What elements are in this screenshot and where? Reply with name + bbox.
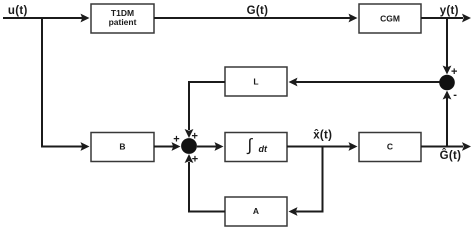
node xhat branch down to A	[289, 147, 323, 216]
svg-text:G(t): G(t)	[247, 5, 269, 17]
svg-text:x̂(t): x̂(t)	[313, 129, 332, 141]
svg-text:+: +	[451, 66, 457, 78]
svg-text:-: -	[453, 89, 457, 101]
block C	[359, 133, 421, 162]
svg-text:patient: patient	[109, 17, 137, 27]
svg-text:+: +	[173, 134, 179, 146]
wire y branch down to sum S1	[443, 17, 452, 75]
svg-text:L: L	[253, 77, 258, 87]
block A	[225, 197, 287, 226]
svg-text:dt: dt	[259, 144, 268, 154]
svg-text:+: +	[192, 131, 198, 143]
svg-text:A: A	[253, 206, 259, 216]
wire Ghat branch up to S1	[443, 91, 452, 147]
summing junction S2	[181, 138, 197, 154]
svg-text:Ĝ(t): Ĝ(t)	[440, 149, 462, 162]
wire integrator to C	[287, 142, 358, 151]
summing junction S1	[439, 75, 455, 91]
block L	[225, 67, 287, 96]
wire L output down to sum S2	[185, 82, 225, 138]
wire G(t) T1DM to CGM	[154, 14, 358, 23]
svg-text:C: C	[387, 141, 393, 151]
svg-text:CGM: CGM	[380, 13, 400, 23]
block T1DM patient	[91, 4, 154, 33]
wire A output up to sum S2	[185, 154, 225, 212]
wire B to sum S2	[154, 142, 181, 151]
wire S1 to L	[289, 78, 440, 87]
svg-text:u(t): u(t)	[8, 5, 28, 17]
wire y(t) output	[421, 14, 471, 23]
block integrator	[225, 133, 287, 162]
wire u branch to B	[41, 142, 90, 151]
block B	[91, 133, 154, 162]
svg-text:B: B	[119, 141, 125, 151]
wire u(t) input to T1DM	[3, 14, 90, 23]
wire S2 to integrator	[197, 142, 224, 151]
svg-text:+: +	[192, 154, 198, 166]
svg-text:y(t): y(t)	[440, 5, 459, 17]
wire Ghat(t) output	[421, 142, 471, 151]
block CGM	[359, 4, 421, 33]
node u branch	[41, 17, 43, 147]
